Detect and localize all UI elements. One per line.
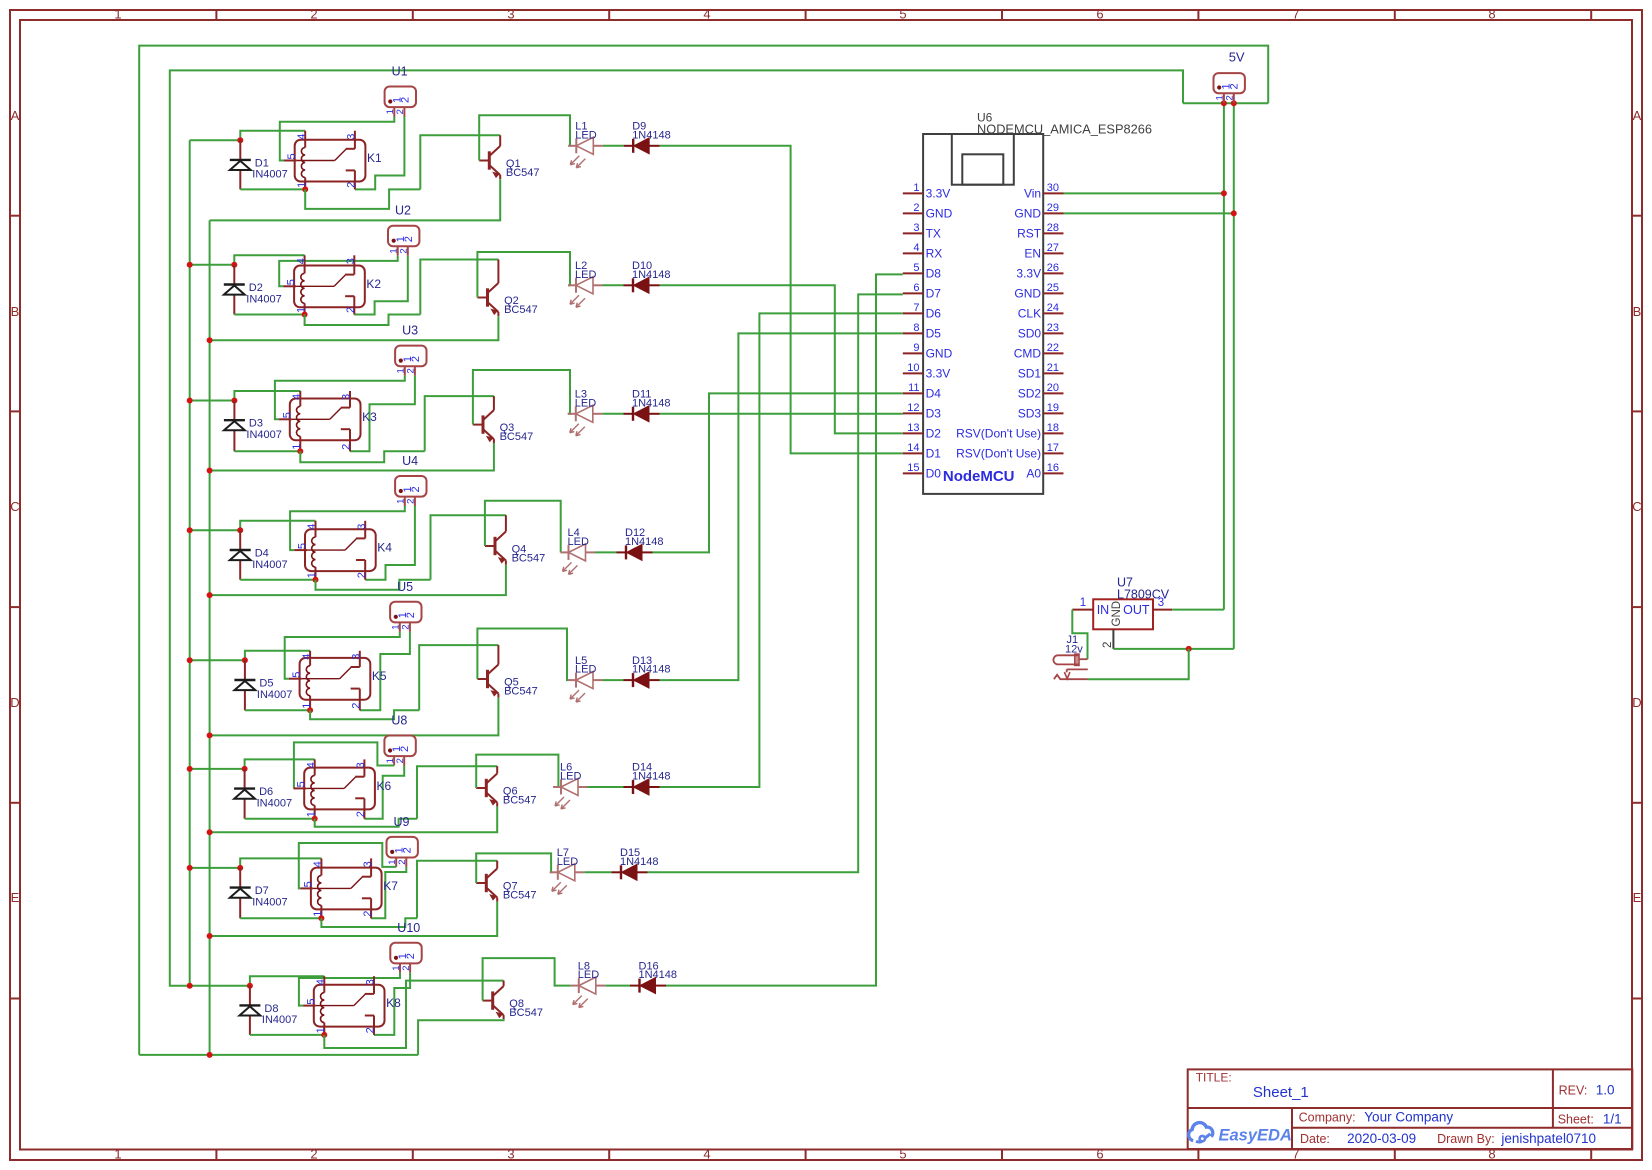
pin 28 RST bbox=[1043, 232, 1063, 234]
wire L3 to D11 bbox=[602, 413, 623, 415]
junction emitter rail block 4 bbox=[207, 592, 213, 598]
connector U5 bbox=[390, 580, 421, 632]
svg-text:BC547: BC547 bbox=[503, 794, 537, 806]
svg-text:1N4148: 1N4148 bbox=[632, 269, 671, 281]
wire D10 to NodeMCU bbox=[660, 285, 903, 433]
svg-text:Sheet_1: Sheet_1 bbox=[1253, 1084, 1309, 1101]
svg-text:18: 18 bbox=[1047, 422, 1059, 434]
pin 17 RSV(Don't Use) bbox=[1043, 452, 1063, 454]
svg-text:19: 19 bbox=[1047, 402, 1059, 414]
svg-text:D8: D8 bbox=[264, 1003, 278, 1015]
svg-text:3: 3 bbox=[355, 762, 367, 768]
wire U4 pin2 to K4 pin2 bbox=[365, 506, 415, 580]
pin 3 TX bbox=[903, 232, 923, 234]
pin 20 SD2 bbox=[1043, 392, 1063, 394]
svg-text:Company:: Company: bbox=[1299, 1111, 1356, 1125]
svg-text:14: 14 bbox=[907, 442, 919, 454]
svg-text:NodeMCU: NodeMCU bbox=[943, 468, 1015, 485]
wire base of Q3 to LED L3 bbox=[473, 370, 570, 425]
relay K2 bbox=[283, 255, 381, 314]
diode D2 IN4007 bbox=[224, 265, 282, 315]
wire base of Q1 to LED L1 bbox=[479, 115, 570, 160]
svg-text:C: C bbox=[10, 499, 19, 514]
transistor Q1 BC547 bbox=[479, 135, 539, 179]
svg-text:11: 11 bbox=[908, 382, 919, 394]
svg-text:4: 4 bbox=[291, 394, 303, 400]
svg-text:K2: K2 bbox=[366, 277, 381, 291]
svg-text:5: 5 bbox=[286, 279, 298, 285]
wire L7 to D15 bbox=[584, 871, 611, 873]
svg-text:K1: K1 bbox=[367, 151, 382, 165]
svg-text:B: B bbox=[11, 304, 20, 319]
wire base of Q8 to LED L8 bbox=[483, 958, 571, 1001]
junction diode D3 top bbox=[231, 398, 237, 404]
svg-text:D2: D2 bbox=[249, 282, 263, 294]
junction diode D7 top bbox=[237, 865, 243, 871]
junction diode D8 top bbox=[247, 983, 253, 989]
svg-text:4: 4 bbox=[703, 7, 710, 22]
svg-text:5: 5 bbox=[302, 881, 314, 887]
svg-text:5: 5 bbox=[899, 1147, 906, 1162]
diode D6 IN4007 bbox=[234, 769, 292, 819]
wire coil return rail block 2 bbox=[234, 314, 304, 316]
diode D13 1N4148 bbox=[624, 655, 671, 688]
junction 12V rail block 2 bbox=[187, 262, 193, 268]
svg-text:2: 2 bbox=[405, 612, 417, 618]
junction diode D6 top bbox=[242, 766, 248, 772]
svg-text:1N4148: 1N4148 bbox=[632, 664, 671, 676]
svg-text:1N4148: 1N4148 bbox=[632, 771, 671, 783]
svg-text:4: 4 bbox=[312, 861, 324, 867]
svg-text:6: 6 bbox=[913, 282, 919, 294]
connector U8 bbox=[384, 714, 415, 766]
diode D9 1N4148 bbox=[624, 121, 671, 154]
wire rail jog block 6 bbox=[315, 819, 417, 827]
svg-text:2: 2 bbox=[410, 486, 422, 492]
LED L2 bbox=[568, 260, 603, 307]
wire U5 pin1 to K5 pin5 bbox=[285, 632, 400, 679]
svg-text:2: 2 bbox=[403, 236, 415, 242]
junction emitter rail block 3 bbox=[207, 468, 213, 474]
svg-text:2: 2 bbox=[356, 572, 368, 578]
svg-text:Your Company: Your Company bbox=[1364, 1110, 1453, 1125]
wire rail jog block 2 bbox=[305, 315, 421, 326]
junction GND bbox=[1231, 210, 1237, 216]
svg-text:8: 8 bbox=[1488, 7, 1495, 22]
pin 4 RX bbox=[903, 252, 923, 254]
wire GND to NodeMCU pin29 bbox=[1064, 212, 1234, 214]
svg-text:BC547: BC547 bbox=[503, 889, 537, 901]
wire base of Q2 to LED L2 bbox=[477, 252, 570, 298]
svg-text:2: 2 bbox=[406, 499, 417, 504]
LED L7 bbox=[550, 847, 585, 894]
junction K8 pin1 bbox=[321, 1032, 327, 1038]
transistor Q8 BC547 bbox=[483, 981, 543, 1020]
svg-text:D4: D4 bbox=[926, 386, 942, 400]
junction K5 pin1 bbox=[307, 707, 313, 713]
junction emitter rail block 5 bbox=[207, 732, 213, 738]
svg-text:9: 9 bbox=[913, 342, 919, 354]
pin 16 A0 bbox=[1043, 472, 1063, 474]
svg-text:3: 3 bbox=[507, 7, 514, 22]
svg-text:U10: U10 bbox=[397, 921, 420, 935]
svg-text:LED: LED bbox=[575, 269, 596, 281]
svg-text:SD1: SD1 bbox=[1018, 366, 1042, 380]
svg-text:5: 5 bbox=[297, 543, 309, 549]
svg-text:2: 2 bbox=[399, 746, 411, 752]
LED L5 bbox=[568, 655, 603, 702]
svg-text:2: 2 bbox=[351, 703, 363, 709]
svg-text:5: 5 bbox=[296, 781, 308, 787]
svg-text:IN4007: IN4007 bbox=[257, 797, 292, 809]
wire 12V branch block 5 bbox=[190, 659, 245, 661]
LED L8 bbox=[571, 960, 606, 1007]
svg-text:24: 24 bbox=[1047, 302, 1059, 314]
wire rail jog block 7 bbox=[321, 918, 417, 927]
wire 12V branch block 4 bbox=[190, 529, 241, 531]
junction 5V pin2 bbox=[1231, 100, 1237, 106]
svg-text:25: 25 bbox=[1047, 282, 1059, 294]
svg-text:10: 10 bbox=[907, 362, 919, 374]
junction 12V rail bottom bbox=[187, 983, 193, 989]
svg-text:13: 13 bbox=[907, 422, 919, 434]
diode D14 1N4148 bbox=[624, 762, 671, 795]
svg-text:2: 2 bbox=[401, 847, 413, 853]
wire D12 to NodeMCU bbox=[653, 393, 903, 552]
svg-text:2: 2 bbox=[1228, 83, 1240, 89]
svg-text:D0: D0 bbox=[926, 466, 942, 480]
pin 21 SD1 bbox=[1043, 372, 1063, 374]
svg-text:U9: U9 bbox=[394, 815, 410, 829]
svg-text:2: 2 bbox=[406, 368, 417, 373]
svg-text:4: 4 bbox=[315, 979, 327, 985]
svg-text:LED: LED bbox=[575, 664, 596, 676]
junction emitter rail block 6 bbox=[207, 829, 213, 835]
svg-text:1N4148: 1N4148 bbox=[632, 397, 671, 409]
svg-text:BC547: BC547 bbox=[504, 304, 538, 316]
svg-text:D3: D3 bbox=[249, 418, 263, 430]
diode D3 IN4007 bbox=[224, 401, 282, 452]
pin 29 GND bbox=[1043, 212, 1063, 214]
svg-text:IN4007: IN4007 bbox=[262, 1014, 297, 1026]
wire D11 to NodeMCU D3 bbox=[660, 413, 903, 415]
wire L8 to D16 bbox=[605, 985, 630, 987]
wire U1 pin2 to K1 pin2 bbox=[355, 117, 405, 190]
svg-text:K5: K5 bbox=[372, 669, 387, 683]
wire rail to collector block 2 bbox=[420, 260, 498, 315]
wire U10 pin1 to K8 pin5 bbox=[299, 973, 400, 1006]
svg-text:26: 26 bbox=[1047, 262, 1059, 274]
svg-text:2: 2 bbox=[395, 109, 406, 114]
svg-text:5: 5 bbox=[286, 153, 298, 159]
junction K7 pin1 bbox=[318, 915, 324, 921]
svg-text:LED: LED bbox=[568, 536, 589, 548]
pin 27 EN bbox=[1043, 252, 1063, 254]
svg-text:2: 2 bbox=[345, 307, 357, 313]
relay K6 bbox=[294, 759, 392, 818]
svg-text:1N4148: 1N4148 bbox=[620, 856, 659, 868]
svg-text:6: 6 bbox=[1096, 1147, 1103, 1162]
svg-text:IN4007: IN4007 bbox=[252, 169, 287, 181]
voltage regulator U7 L7809CV bbox=[1072, 576, 1172, 649]
junction K3 pin1 bbox=[297, 448, 303, 454]
relay K8 bbox=[303, 976, 401, 1035]
LED L3 bbox=[568, 389, 603, 436]
svg-text:LED: LED bbox=[578, 969, 599, 981]
svg-text:D4: D4 bbox=[255, 547, 269, 559]
svg-text:7: 7 bbox=[913, 302, 919, 314]
pin 9 GND bbox=[903, 352, 923, 354]
wire 12V branch block 1 bbox=[190, 139, 241, 141]
svg-text:A0: A0 bbox=[1026, 466, 1041, 480]
pin 8 D5 bbox=[903, 332, 923, 334]
svg-text:15: 15 bbox=[907, 462, 919, 474]
svg-text:Sheet:: Sheet: bbox=[1558, 1113, 1594, 1127]
junction emitter rail block 2 bbox=[207, 337, 213, 343]
svg-text:2: 2 bbox=[365, 1027, 377, 1033]
wire L4 to D12 bbox=[595, 551, 617, 553]
svg-text:E: E bbox=[1633, 890, 1642, 905]
wire coil return rail block 6 bbox=[245, 818, 315, 820]
svg-text:29: 29 bbox=[1047, 202, 1059, 214]
svg-text:RSV(Don't Use): RSV(Don't Use) bbox=[956, 426, 1041, 440]
wire coil return rail block 4 bbox=[240, 579, 315, 581]
svg-text:2: 2 bbox=[395, 758, 406, 763]
junction 5V pin1 bbox=[1221, 100, 1227, 106]
svg-text:2: 2 bbox=[399, 248, 410, 253]
wire J1 sleeve to GND bbox=[1088, 649, 1189, 679]
svg-text:K8: K8 bbox=[386, 996, 401, 1010]
svg-text:2: 2 bbox=[405, 953, 417, 959]
pin 1 3.3V bbox=[903, 192, 923, 194]
junction diode D1 top bbox=[237, 137, 243, 143]
LED L4 bbox=[561, 527, 596, 574]
transistor Q3 BC547 bbox=[473, 396, 533, 443]
wire rail to collector block 1 bbox=[420, 135, 500, 189]
svg-text:D: D bbox=[10, 695, 19, 710]
svg-text:1N4148: 1N4148 bbox=[632, 129, 671, 141]
svg-text:2: 2 bbox=[399, 97, 411, 103]
pin 2 GND bbox=[903, 212, 923, 214]
svg-text:IN4007: IN4007 bbox=[246, 293, 281, 305]
svg-text:K3: K3 bbox=[362, 410, 377, 424]
pin 26 3.3V bbox=[1043, 272, 1063, 274]
svg-text:1N4148: 1N4148 bbox=[639, 969, 678, 981]
wire emitter Q7 to GND rail bbox=[210, 902, 498, 936]
pin 25 GND bbox=[1043, 292, 1063, 294]
IC U6 NODEMCU_AMICA_ESP8266 bbox=[903, 111, 1152, 494]
svg-text:BC547: BC547 bbox=[504, 685, 538, 697]
pin 14 D1 bbox=[903, 452, 923, 454]
svg-text:4: 4 bbox=[295, 258, 307, 264]
pin 7 D6 bbox=[903, 312, 923, 314]
wire L6 to D14 bbox=[588, 786, 624, 788]
svg-text:5: 5 bbox=[899, 7, 906, 22]
svg-text:8: 8 bbox=[913, 322, 919, 334]
connector U9 bbox=[387, 815, 418, 867]
svg-text:IN4007: IN4007 bbox=[246, 429, 281, 441]
svg-text:21: 21 bbox=[1047, 362, 1059, 374]
svg-text:1/1: 1/1 bbox=[1603, 1112, 1622, 1127]
relay K1 bbox=[284, 131, 382, 190]
title block bbox=[1188, 1069, 1633, 1149]
svg-text:D8: D8 bbox=[926, 266, 942, 280]
svg-text:12: 12 bbox=[907, 402, 919, 414]
pin 24 CLK bbox=[1043, 312, 1063, 314]
wire 12V branch block 7 bbox=[190, 867, 241, 869]
svg-text:3: 3 bbox=[356, 524, 368, 530]
wire emitter Q5 to GND rail bbox=[210, 698, 499, 736]
wire U8 pin1 to K6 pin5 bbox=[294, 742, 395, 788]
pin 22 CMD bbox=[1043, 352, 1063, 354]
junction diode D4 top bbox=[237, 527, 243, 533]
junction 12V rail block 4 bbox=[187, 527, 193, 533]
wire base of Q5 to LED L5 bbox=[477, 629, 568, 681]
transistor Q2 BC547 bbox=[477, 260, 537, 317]
svg-text:D7: D7 bbox=[926, 286, 942, 300]
wire L2 to D10 bbox=[603, 284, 624, 286]
diode D8 IN4007 bbox=[239, 986, 297, 1035]
diode D11 1N4148 bbox=[624, 389, 671, 422]
svg-text:REV:: REV: bbox=[1559, 1084, 1588, 1098]
wire coil return rail block 8 bbox=[250, 1034, 324, 1036]
svg-text:3: 3 bbox=[345, 258, 357, 264]
svg-text:K4: K4 bbox=[377, 541, 392, 555]
wire D15 to NodeMCU bbox=[648, 294, 903, 872]
svg-text:LED: LED bbox=[560, 771, 581, 783]
wire U3 pin2 to K3 pin2 bbox=[350, 376, 415, 452]
wire rail jog to collector block 8 bbox=[324, 981, 503, 1048]
wire rail jog block 1 bbox=[305, 189, 420, 209]
svg-text:3.3V: 3.3V bbox=[926, 366, 951, 380]
svg-text:IN4007: IN4007 bbox=[252, 559, 287, 571]
connector J1 12v barrel jack bbox=[1053, 634, 1087, 679]
svg-text:3: 3 bbox=[913, 222, 919, 234]
svg-text:GND: GND bbox=[1014, 286, 1041, 300]
pin 12 D3 bbox=[903, 412, 923, 414]
svg-text:EasyEDA: EasyEDA bbox=[1219, 1127, 1292, 1145]
junction 12V rail block 7 bbox=[187, 865, 193, 871]
relay K5 bbox=[289, 651, 387, 711]
wire D13 to NodeMCU bbox=[660, 333, 903, 680]
transistor Q7 BC547 bbox=[476, 861, 536, 902]
junction diode D5 top bbox=[242, 657, 248, 663]
wire base of Q6 to LED L6 bbox=[476, 755, 558, 788]
svg-text:TX: TX bbox=[926, 226, 941, 240]
wire U7 GND to GND rail bbox=[1113, 648, 1233, 650]
svg-text:BC547: BC547 bbox=[509, 1007, 543, 1019]
diode D12 1N4148 bbox=[617, 527, 664, 560]
svg-text:2: 2 bbox=[310, 7, 317, 22]
svg-text:16: 16 bbox=[1047, 462, 1059, 474]
relay K4 bbox=[294, 521, 392, 580]
wire U9 pin2 to K7 pin2 bbox=[371, 867, 406, 918]
pin 5 D8 bbox=[903, 272, 923, 274]
wire emitter GND rail bbox=[209, 220, 211, 1055]
svg-text:C: C bbox=[1632, 499, 1641, 514]
svg-text:2: 2 bbox=[397, 860, 408, 865]
wire rail jog block 5 bbox=[310, 710, 419, 719]
diode D5 IN4007 bbox=[234, 660, 292, 710]
svg-text:D6: D6 bbox=[259, 786, 273, 798]
svg-text:5: 5 bbox=[305, 998, 317, 1004]
svg-text:RSV(Don't Use): RSV(Don't Use) bbox=[956, 446, 1041, 460]
wire Vin rail bbox=[1223, 103, 1225, 609]
svg-text:Drawn By:: Drawn By: bbox=[1437, 1132, 1495, 1146]
wire 12V coil rail bbox=[189, 140, 191, 986]
wire emitter Q3 to GND rail bbox=[210, 443, 494, 470]
svg-text:U2: U2 bbox=[395, 204, 411, 218]
svg-text:LED: LED bbox=[575, 397, 596, 409]
wire 12V branch block 8 bbox=[190, 985, 250, 987]
wire coil return rail block 5 bbox=[245, 709, 310, 711]
svg-text:RST: RST bbox=[1017, 226, 1042, 240]
wire emitter Q4 to GND rail bbox=[210, 565, 506, 595]
wire U8 pin2 to K6 pin2 bbox=[364, 766, 404, 819]
wire L5 to D13 bbox=[603, 679, 624, 681]
svg-text:1: 1 bbox=[114, 1147, 121, 1162]
wire emitter Q2 to GND rail bbox=[210, 316, 499, 340]
wire U3 pin1 to K3 pin5 bbox=[275, 376, 405, 420]
svg-text:RX: RX bbox=[926, 246, 943, 260]
svg-text:27: 27 bbox=[1047, 242, 1059, 254]
svg-text:3: 3 bbox=[1158, 597, 1164, 609]
junction K2 pin1 bbox=[302, 312, 308, 318]
junction 12V rail block 3 bbox=[187, 398, 193, 404]
svg-text:jenishpatel0710: jenishpatel0710 bbox=[1500, 1131, 1596, 1146]
svg-text:IN4007: IN4007 bbox=[257, 689, 292, 701]
junction 12V rail block 5 bbox=[187, 657, 193, 663]
wire U10 pin2 to K8 pin2 bbox=[374, 973, 410, 1035]
svg-text:5: 5 bbox=[281, 412, 293, 418]
EasyEDA logo bbox=[1189, 1123, 1213, 1142]
svg-text:B: B bbox=[1633, 304, 1642, 319]
wire J1 tip to U7 IN bbox=[1072, 610, 1087, 660]
svg-text:K6: K6 bbox=[377, 779, 392, 793]
svg-text:2: 2 bbox=[362, 911, 374, 917]
junction GND J1 bbox=[1186, 646, 1192, 652]
svg-text:22: 22 bbox=[1047, 342, 1059, 354]
svg-text:5: 5 bbox=[291, 672, 303, 678]
wire Vin to NodeMCU pin30 bbox=[1064, 192, 1224, 194]
svg-text:4: 4 bbox=[913, 242, 919, 254]
svg-text:23: 23 bbox=[1047, 322, 1059, 334]
svg-text:LED: LED bbox=[557, 856, 578, 868]
svg-text:SD2: SD2 bbox=[1018, 386, 1042, 400]
svg-text:30: 30 bbox=[1047, 182, 1059, 194]
svg-text:K7: K7 bbox=[383, 879, 398, 893]
svg-text:2: 2 bbox=[1225, 95, 1236, 100]
wire coil return rail block 1 bbox=[240, 188, 305, 190]
diode D15 1N4148 bbox=[612, 847, 659, 880]
svg-text:A: A bbox=[11, 108, 20, 123]
svg-text:4: 4 bbox=[305, 762, 317, 768]
pin 6 D7 bbox=[903, 292, 923, 294]
pin 23 SD0 bbox=[1043, 332, 1063, 334]
svg-text:U5: U5 bbox=[397, 580, 413, 594]
wire 5V feed loop bbox=[170, 70, 1183, 985]
wire rail to collector block 7 bbox=[417, 861, 497, 919]
diode D10 1N4148 bbox=[624, 260, 671, 293]
wire rail to collector block 3 bbox=[425, 396, 494, 451]
svg-text:SD0: SD0 bbox=[1018, 326, 1042, 340]
svg-text:BC547: BC547 bbox=[512, 552, 546, 564]
svg-text:IN: IN bbox=[1097, 603, 1110, 617]
wire 12V branch block 2 bbox=[190, 264, 235, 266]
relay K7 bbox=[300, 858, 398, 918]
svg-text:4: 4 bbox=[703, 1147, 710, 1162]
pin 10 3.3V bbox=[903, 372, 923, 374]
